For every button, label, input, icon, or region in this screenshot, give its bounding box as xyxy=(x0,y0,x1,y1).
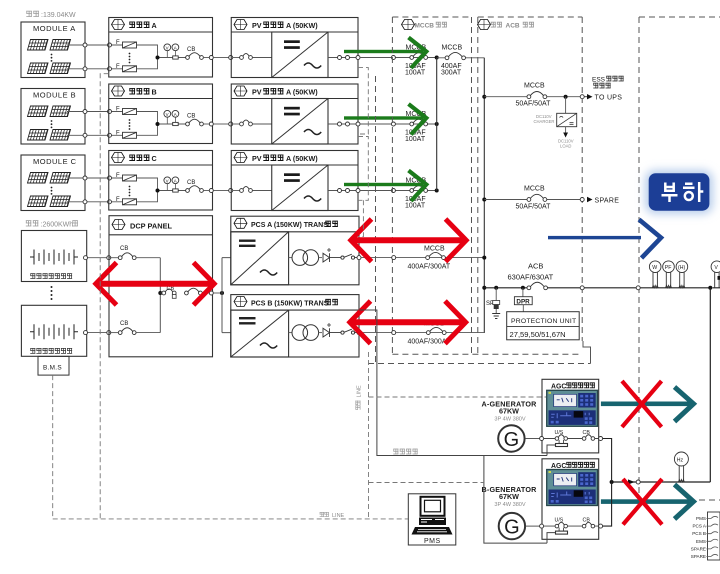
outer boundary dashed xyxy=(368,363,591,365)
AGC panel A box xyxy=(542,379,599,453)
svg-text:ACB: ACB xyxy=(506,23,520,30)
UPS branch MCCB 50AF/50AT xyxy=(482,95,486,99)
svg-text:630AF/630AT: 630AF/630AT xyxy=(508,273,554,282)
svg-text:ACB: ACB xyxy=(528,262,543,271)
teal arrow generator A xyxy=(601,402,690,407)
generator A xyxy=(498,425,524,451)
PCS A transformer xyxy=(289,257,292,259)
svg-text:G: G xyxy=(504,429,520,451)
PCS input bus bracket xyxy=(222,258,231,333)
SPARE branch MCCB 50AF/50AT xyxy=(482,198,486,202)
red X over arrow B xyxy=(623,479,662,525)
SP surge protector xyxy=(495,288,497,301)
battery box 2 xyxy=(21,305,86,356)
PV row B xyxy=(21,84,439,144)
meter V right edge xyxy=(711,261,720,288)
capacity label 139.04KW xyxy=(26,11,39,17)
svg-text:C: C xyxy=(152,154,157,163)
ACB vertical bus xyxy=(483,58,485,333)
svg-text:27,59,50/51,67N: 27,59,50/51,67N xyxy=(510,330,566,339)
generator tie line xyxy=(612,481,711,483)
right feeder down to generators xyxy=(709,288,711,482)
svg-text:SPARE: SPARE xyxy=(691,546,706,551)
PCS B output xyxy=(357,331,361,335)
svg-text:PCS A (150KW) TRANS: PCS A (150KW) TRANS xyxy=(251,222,328,229)
tie to PCS bus xyxy=(213,292,222,294)
svg-text:DPR: DPR xyxy=(516,298,530,305)
svg-text:MCCB: MCCB xyxy=(415,23,435,30)
PMS computer icon xyxy=(412,497,453,535)
svg-text:EMS: EMS xyxy=(696,539,706,544)
svg-text:SPARE: SPARE xyxy=(595,198,620,205)
meter Hz on tie xyxy=(674,452,688,482)
svg-text:PCS B (150KW) TRANS: PCS B (150KW) TRANS xyxy=(251,300,329,307)
svg-text:AGC: AGC xyxy=(551,383,566,390)
AGC panel B box xyxy=(542,459,599,540)
svg-text:V: V xyxy=(714,265,718,271)
svg-text:PF: PF xyxy=(665,265,672,271)
svg-text::139.04KW: :139.04KW xyxy=(41,12,76,19)
AGC panel B face xyxy=(547,470,598,506)
PCS B thyristor xyxy=(323,328,334,337)
PCS B MCCB 400AF/300AT xyxy=(426,331,430,335)
load box glow xyxy=(645,170,713,214)
ACB panel title xyxy=(478,20,491,30)
PCS A MCCB 400AF/300AT xyxy=(426,256,430,260)
svg-text:B.M.S: B.M.S xyxy=(43,365,62,372)
svg-text:W: W xyxy=(652,265,657,271)
terminal strip box bottom right xyxy=(708,512,720,560)
teal arrow generator B xyxy=(601,499,690,504)
AGC panel A face xyxy=(547,390,598,426)
DCP inner bus xyxy=(159,258,161,333)
svg-text:DCP PANEL: DCP PANEL xyxy=(130,222,173,231)
svg-text:CB: CB xyxy=(120,321,128,327)
red arrow PCS A bidirectional xyxy=(354,237,464,243)
svg-text:MODULE B: MODULE B xyxy=(33,91,76,100)
red arrow PCS B bidirectional xyxy=(353,319,464,325)
svg-text:PMS: PMS xyxy=(424,538,441,545)
svg-text:PMS: PMS xyxy=(696,516,706,521)
load panel dashed enclosure xyxy=(639,17,720,500)
red arrow battery bidirectional xyxy=(98,281,212,287)
generator A labels xyxy=(481,400,537,423)
svg-text:A: A xyxy=(152,21,157,30)
svg-text:50AF/50AT: 50AF/50AT xyxy=(516,203,552,210)
svg-text:TO UPS: TO UPS xyxy=(595,95,623,102)
battery 1 wire xyxy=(87,257,108,259)
PCS B transformer xyxy=(289,332,292,334)
svg-text:MCCB: MCCB xyxy=(524,83,545,90)
svg-text:MCCB: MCCB xyxy=(524,186,545,193)
svg-text:PCS A: PCS A xyxy=(692,524,706,529)
svg-text:G: G xyxy=(504,517,520,539)
svg-text:400AF/300AT: 400AF/300AT xyxy=(408,263,451,270)
svg-text:ESS: ESS xyxy=(592,77,606,84)
protection unit box xyxy=(507,312,580,340)
PV row C xyxy=(21,151,439,211)
dots between batteries xyxy=(51,286,53,288)
DCP output breakers xyxy=(160,292,162,294)
red X over arrow A xyxy=(622,381,662,427)
DC110V charger branch xyxy=(565,97,567,114)
BMS box xyxy=(38,356,69,375)
svg-text:LINE: LINE xyxy=(332,513,345,519)
svg-text:LOAD: LOAD xyxy=(560,143,571,148)
svg-text:MODULE A: MODULE A xyxy=(33,24,76,33)
svg-text:(H): (H) xyxy=(678,265,685,271)
svg-text:3P 4W 380V: 3P 4W 380V xyxy=(494,417,526,423)
PV row A : module A / junction panel A / inverter A xyxy=(21,18,439,78)
battery symbol 1 xyxy=(30,250,78,265)
battery symbol 2 xyxy=(30,324,78,339)
부하 glyphs xyxy=(662,182,704,202)
generator B labels xyxy=(481,485,537,508)
PCS A output switch xyxy=(341,256,344,259)
MCCB 400AF/300AT main breaker xyxy=(437,57,485,59)
load box 부하 xyxy=(649,173,710,211)
PCS B output switch xyxy=(341,331,344,334)
PCS A box xyxy=(231,216,359,285)
generator B xyxy=(499,513,525,539)
svg-text:PCS B: PCS B xyxy=(692,531,706,536)
svg-text:B: B xyxy=(152,88,157,97)
meter H xyxy=(676,261,688,288)
contact signal line xyxy=(359,310,547,543)
PCS A output xyxy=(357,256,361,260)
comm line network dashed xyxy=(53,74,546,519)
svg-text:Hz: Hz xyxy=(677,457,684,463)
svg-text:LINE: LINE xyxy=(357,385,363,398)
ACB 630AF/630AT xyxy=(482,286,486,290)
ACB panel dashed enclosure xyxy=(478,17,582,354)
svg-text:67KW: 67KW xyxy=(499,492,519,501)
capacity label 2600KWh xyxy=(26,220,39,226)
svg-text:SPARE: SPARE xyxy=(691,554,706,559)
PCS A converter xyxy=(231,232,289,285)
MCCB panel dashed enclosure xyxy=(368,17,720,500)
PCS A thyristor xyxy=(323,253,334,262)
protection unit link to comm xyxy=(583,341,591,364)
battery 2 wire xyxy=(87,332,108,334)
meter PF xyxy=(663,261,675,288)
svg-text:AGC: AGC xyxy=(551,463,566,470)
svg-text:3P 4W 380V: 3P 4W 380V xyxy=(494,502,526,508)
svg-text:MODULE C: MODULE C xyxy=(33,157,77,166)
PCS B converter xyxy=(231,310,289,357)
inverter aux chain dashed xyxy=(358,68,368,237)
comm line labels xyxy=(356,385,363,410)
PMS box xyxy=(408,494,456,545)
blue flow arrow to load xyxy=(548,236,641,239)
MCCB collector bus xyxy=(436,58,438,191)
svg-text:PROTECTION UNIT: PROTECTION UNIT xyxy=(511,318,576,325)
generator B wiring xyxy=(525,525,540,527)
svg-text:50AF/50AT: 50AF/50AT xyxy=(516,101,552,108)
DPR relay xyxy=(522,288,524,297)
svg-text::2600KWh: :2600KWh xyxy=(41,222,74,229)
PCS B box xyxy=(231,295,359,357)
generator A wiring xyxy=(525,438,540,440)
DCP panel box xyxy=(109,216,213,357)
svg-text:MCCB: MCCB xyxy=(424,246,445,253)
meter W xyxy=(649,261,661,288)
ground xyxy=(492,314,500,319)
svg-text:67KW: 67KW xyxy=(499,407,519,416)
svg-text:300AT: 300AT xyxy=(441,69,462,76)
MCCB panel title xyxy=(402,20,415,30)
svg-text:CHARGER: CHARGER xyxy=(534,119,555,124)
svg-text:MCCB: MCCB xyxy=(442,45,463,52)
svg-text:CB: CB xyxy=(120,246,128,252)
battery box 1 xyxy=(21,231,86,282)
